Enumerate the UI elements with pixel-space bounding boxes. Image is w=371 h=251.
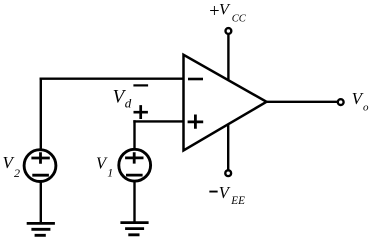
svg-text:2: 2 — [14, 166, 20, 180]
Vd minus sign — [133, 84, 148, 86]
svg-text:d: d — [125, 96, 132, 111]
op-amp noninverting input plus sign — [188, 115, 204, 129]
wire VCC supply to op-amp — [227, 34, 229, 80]
wire noninverting input horizontal — [133, 120, 183, 122]
V1 minus sign — [126, 174, 143, 177]
svg-text:CC: CC — [232, 14, 247, 25]
terminal Vo — [338, 99, 344, 105]
V2 plus sign — [31, 152, 49, 163]
voltage source V2 — [24, 150, 56, 182]
op-amp U1 — [184, 55, 267, 151]
svg-text:EE: EE — [230, 195, 245, 207]
svg-text:o: o — [363, 101, 369, 113]
wire V2 to ground — [40, 182, 42, 223]
wire V1 to ground — [133, 181, 135, 221]
op-amp inverting input minus sign — [188, 78, 203, 81]
svg-text:V: V — [219, 0, 231, 18]
label -VEE — [209, 191, 217, 193]
terminal VCC — [226, 28, 232, 34]
wire inverting input horizontal — [40, 77, 184, 79]
svg-text:V: V — [219, 183, 231, 202]
voltage source V1 — [119, 149, 151, 181]
V1 plus sign — [125, 152, 143, 163]
Vd plus sign — [134, 105, 148, 119]
terminal VEE — [225, 170, 231, 176]
ground below V1 — [120, 223, 148, 235]
wire output — [267, 101, 338, 103]
wire V1 to noninverting corner — [133, 120, 135, 149]
wire V2 to inverting corner — [40, 78, 42, 150]
wire op-amp to VEE supply — [227, 124, 229, 170]
V2 minus sign — [32, 174, 49, 177]
svg-text:1: 1 — [107, 165, 113, 179]
ground below V2 — [27, 223, 55, 235]
